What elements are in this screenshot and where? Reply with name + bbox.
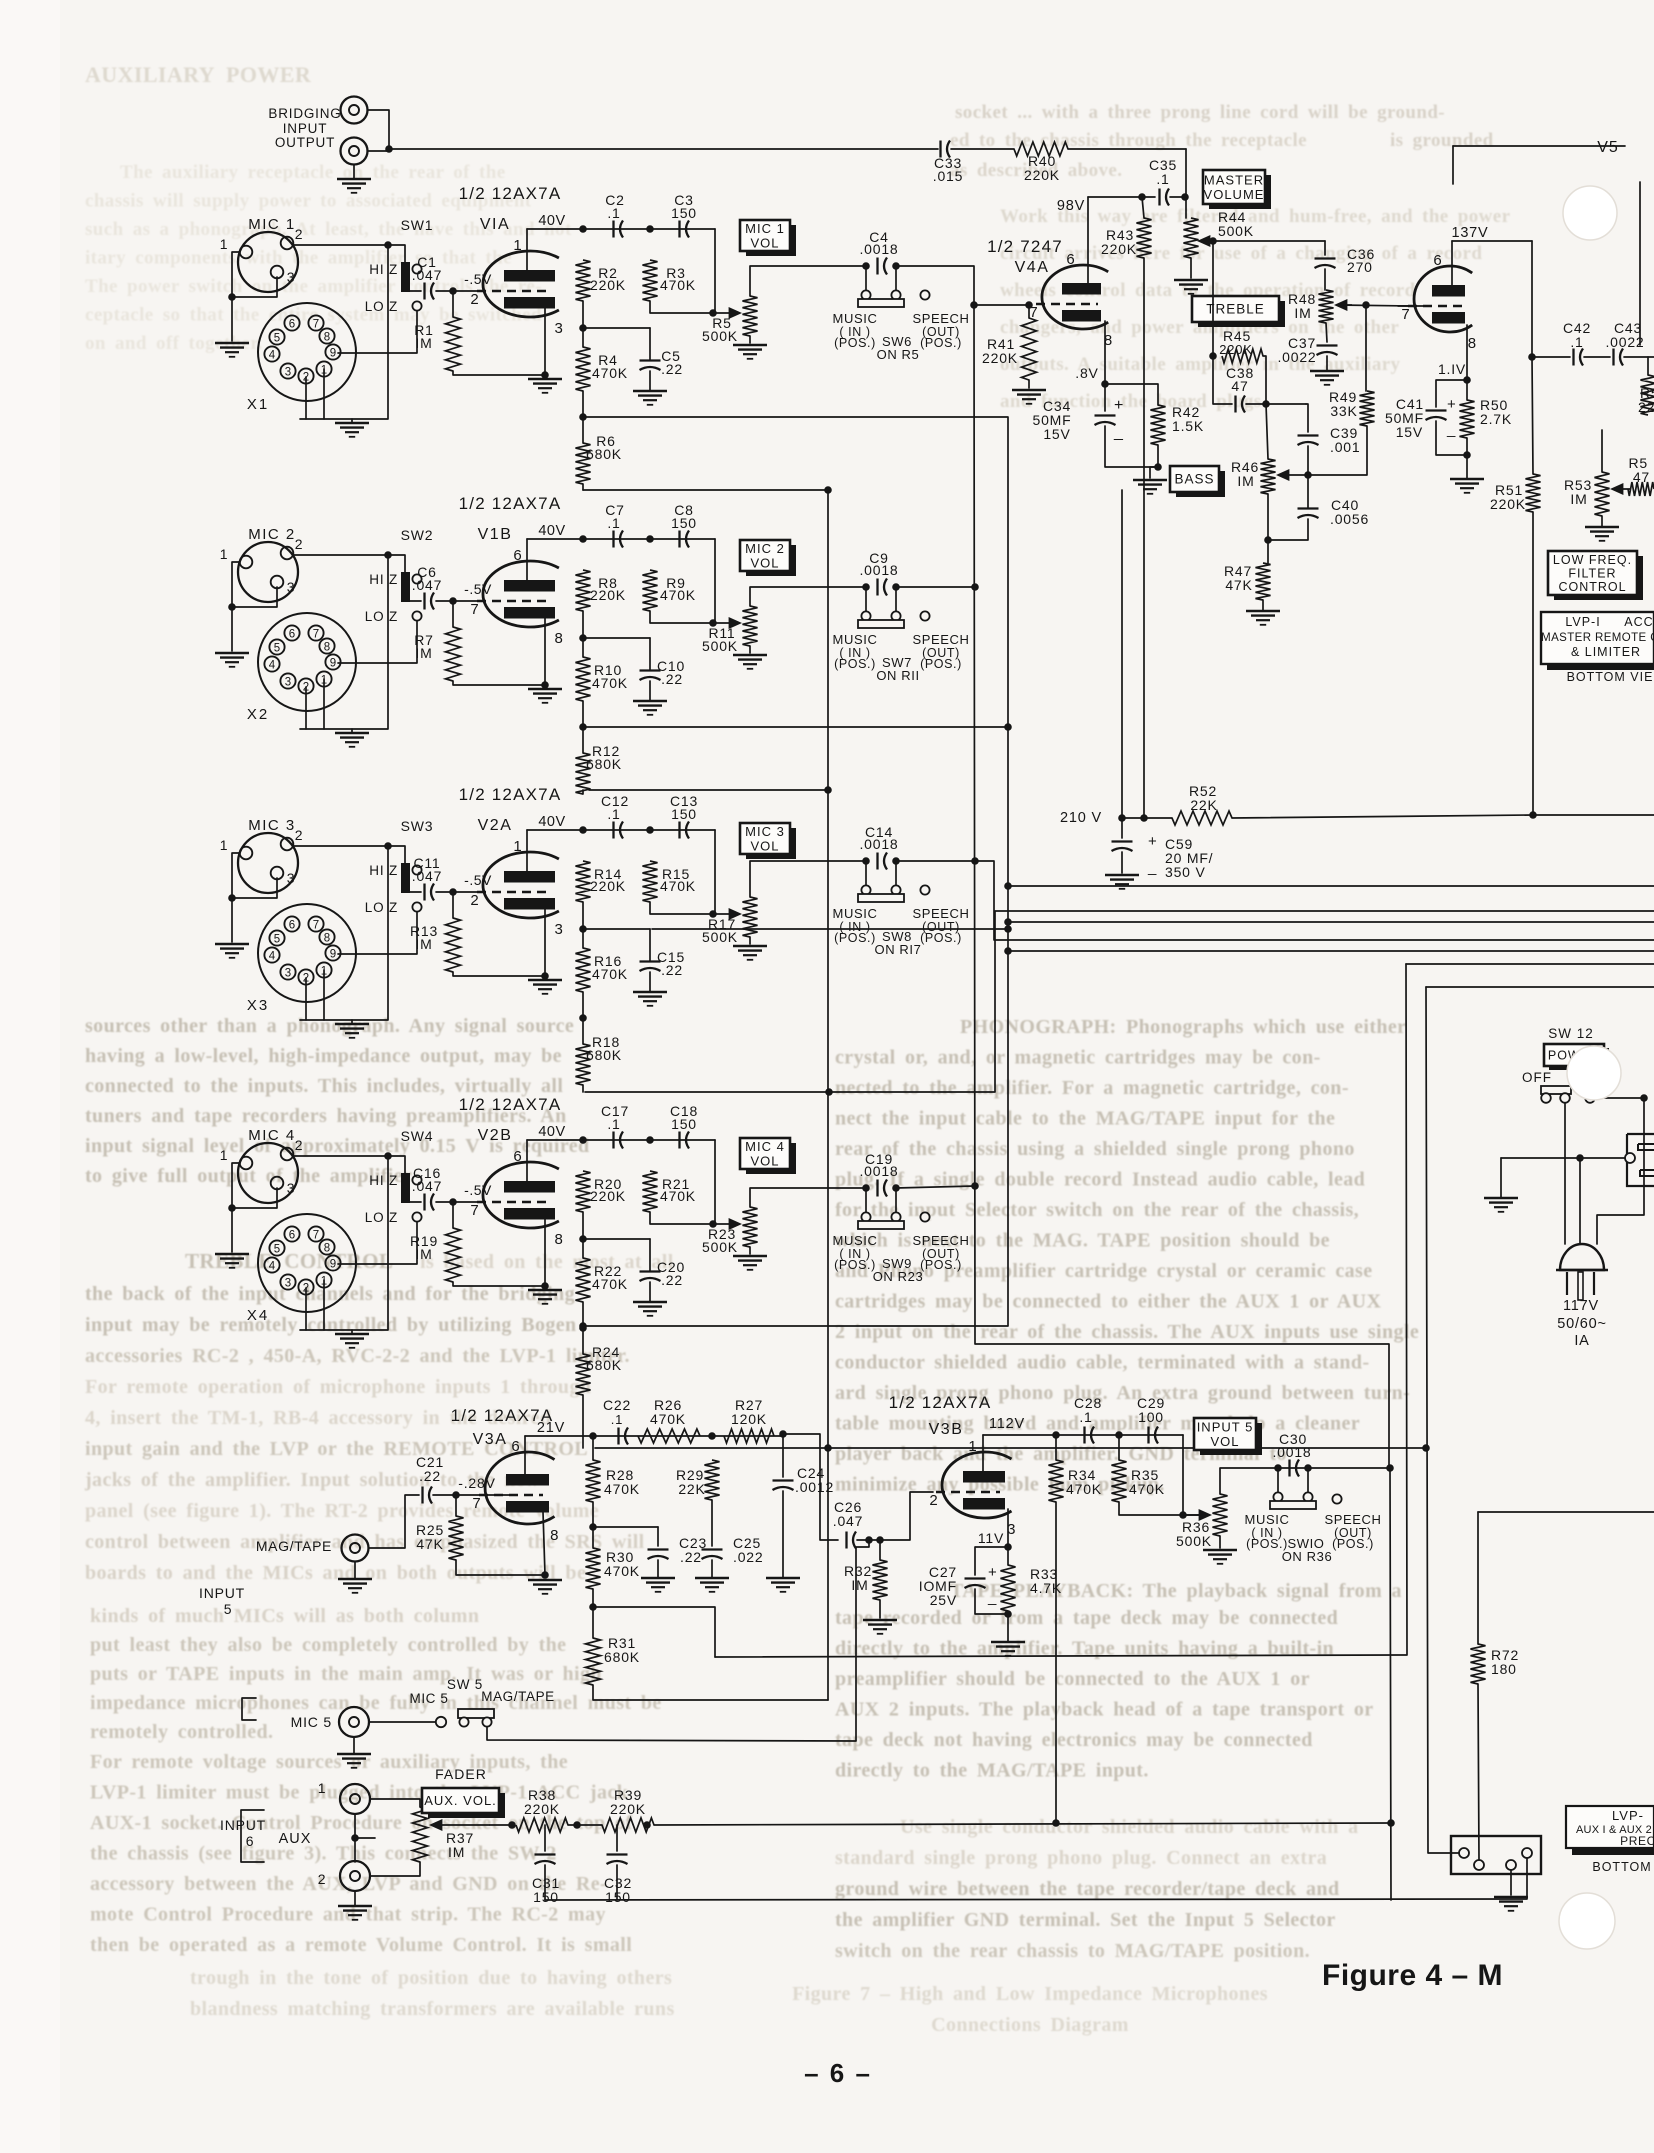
svg-text:7: 7: [313, 629, 319, 641]
grid node: [449, 1198, 457, 1206]
wire pot top to selector line: [750, 266, 866, 296]
ground under terminal strip: [1510, 1870, 1512, 1895]
svg-text:8: 8: [324, 1243, 330, 1255]
wire right edge vertical: [1639, 182, 1641, 345]
capacitor C8 150: [678, 531, 680, 548]
svg-text:IM: IM: [415, 936, 432, 952]
svg-text:117V: 117V: [1563, 1298, 1599, 1314]
wire R3 bottom to pot arrow junction: [650, 902, 713, 914]
resistor R12 680K: [576, 753, 591, 794]
svg-text:ON RI7: ON RI7: [875, 942, 922, 957]
svg-text:IM: IM: [1294, 305, 1311, 321]
svg-text:which is next to the MAG.: which is next to the MAG. TAPE position …: [835, 1230, 1330, 1252]
wire junction to C5: [583, 637, 650, 639]
svg-text:220K: 220K: [1024, 167, 1060, 183]
svg-text:V2A: V2A: [478, 817, 513, 834]
svg-text:LVP-: LVP-: [1612, 1808, 1644, 1823]
wire to volume pot: [714, 539, 716, 623]
wire R53 top: [1601, 430, 1603, 472]
junction ch4 bus1: [579, 1322, 587, 1330]
svg-text:.22: .22: [661, 361, 683, 377]
svg-text:220K: 220K: [1219, 342, 1253, 357]
svg-text:5: 5: [274, 1244, 280, 1256]
resistor R15 470K: [643, 861, 658, 902]
wire R45 right to C38 lower: [1263, 356, 1266, 404]
svg-text:3: 3: [285, 367, 291, 379]
svg-text:.0056: .0056: [1330, 511, 1369, 527]
wire XLR pin2 to switch: [293, 845, 388, 847]
ground under pot: [733, 654, 767, 657]
svg-text:470K: 470K: [660, 878, 696, 894]
resistor R1 1M grid return: [446, 317, 461, 371]
junction bridging: [385, 145, 393, 153]
wire switch common to coupling capacitor: [410, 290, 421, 292]
svg-text:SPEECH: SPEECH: [912, 906, 969, 921]
svg-text:BRIDGING: BRIDGING: [268, 106, 341, 121]
svg-text:.22: .22: [661, 962, 683, 978]
svg-text:FILTER: FILTER: [1568, 566, 1616, 580]
capacitor C21 .22 input: [421, 1487, 423, 1504]
wire V3B plate lead: [982, 1435, 984, 1471]
svg-text:VOL: VOL: [750, 235, 779, 250]
svg-text:680K: 680K: [586, 756, 622, 772]
svg-text:ON R36: ON R36: [1282, 1549, 1333, 1564]
resistor R28 470K: [586, 1460, 601, 1502]
svg-text:MIC 2: MIC 2: [248, 526, 296, 543]
svg-text:470K: 470K: [660, 587, 696, 603]
wire bus2 vertical extension to R31 bus: [827, 1448, 829, 1700]
ground under MIC5 jack: [353, 1737, 355, 1753]
wire plate line: [527, 1139, 715, 1141]
jack MIC 5 input: [339, 1707, 369, 1737]
svg-text:210 V: 210 V: [1060, 810, 1102, 826]
wire grid resistor to cathode: [453, 371, 545, 375]
capacitor C5 .22 bypass: [640, 359, 661, 361]
wire plate lead to 40V plate line: [526, 1140, 528, 1181]
junction R38/R39: [573, 1821, 581, 1829]
svg-text:– 6 –: – 6 –: [804, 2058, 872, 2088]
label box MIC 1 VOL: [746, 225, 796, 256]
wire fader wiper to R38: [490, 1824, 512, 1826]
resistor R13 1M grid return: [446, 918, 461, 972]
svg-text:1: 1: [220, 236, 229, 252]
V4A cathode network: [1104, 321, 1106, 384]
svg-text:3: 3: [285, 677, 291, 689]
capacitor C24 .0012: [782, 1434, 784, 1477]
svg-text:.1: .1: [1079, 1409, 1092, 1425]
svg-text:.047: .047: [833, 1513, 863, 1529]
wire R2 to R4: [582, 902, 584, 948]
svg-text:PHONOGRAPH: Phonographs whic: PHONOGRAPH: Phonographs which use either: [960, 1016, 1406, 1038]
triode V2B (1/2 12AX7A): [483, 1162, 559, 1228]
wire R36 top to SW10 line: [1220, 1468, 1390, 1494]
junction SW9 output: [971, 1182, 979, 1190]
svg-text:3: 3: [287, 579, 296, 595]
svg-text:.22: .22: [419, 1468, 441, 1484]
svg-text:5: 5: [274, 333, 280, 345]
ground under cathode: [528, 688, 562, 691]
wire switch common to coupling capacitor: [410, 600, 421, 602]
svg-text:HI Z: HI Z: [369, 863, 398, 878]
junction bus1: [579, 723, 587, 731]
svg-text:1: 1: [220, 1147, 229, 1163]
svg-text:(POS.): (POS.): [920, 931, 962, 945]
svg-text:VOL: VOL: [750, 555, 779, 570]
wire switch common to coupling capacitor: [410, 1201, 421, 1203]
svg-text:.0018: .0018: [859, 241, 898, 257]
svg-text:6: 6: [511, 1438, 520, 1455]
svg-text:preamplifier should be conn: preamplifier should be connected to the …: [835, 1668, 1310, 1690]
triode V4A (1/2 7247): [1042, 265, 1108, 329]
label box TREBLE: [1198, 301, 1285, 327]
svg-text:220K: 220K: [610, 1801, 646, 1817]
label box MIC 2 VOL: [746, 545, 796, 576]
ground under R42: [1133, 479, 1167, 482]
svg-text:MASTER: MASTER: [1204, 172, 1264, 187]
svg-text:500K: 500K: [1218, 223, 1254, 239]
svg-text:(POS.): (POS.): [834, 657, 876, 671]
wire XLR pin1 to ground bus: [232, 853, 240, 942]
wire to volume pot: [714, 830, 716, 914]
svg-text:6: 6: [289, 629, 295, 641]
svg-text:switch on the rear chassis: switch on the rear chassis to MAG/TAPE p…: [835, 1940, 1310, 1962]
svg-text:680K: 680K: [586, 1357, 622, 1373]
wire V3A plate line to V3B grid line: [783, 1434, 838, 1540]
wire input6 bracket: [241, 1810, 264, 1862]
svg-text:X4: X4: [247, 1307, 269, 1324]
svg-text:98V: 98V: [1057, 198, 1085, 214]
svg-text:C22: C22: [603, 1397, 631, 1413]
svg-text:-.28V: -.28V: [458, 1475, 495, 1491]
capacitor C27 10MF 25V electrolytic: [975, 1547, 1008, 1575]
svg-text:.0022: .0022: [1277, 349, 1316, 365]
wire AUX jack2 to fader: [370, 1862, 420, 1876]
MAG/TAPE input jack: [342, 1535, 369, 1562]
label box MIC 4 VOL: [746, 1143, 796, 1174]
svg-text:TREBLE: TREBLE: [1206, 302, 1265, 317]
wire C26 to V3B grid: [857, 1492, 933, 1540]
junction ch2 bus2: [824, 786, 832, 794]
svg-text:2: 2: [470, 892, 479, 909]
wire XLR pin1 to ground bus: [232, 562, 240, 651]
ground on AC line: [1500, 1158, 1502, 1197]
wire to C39: [1306, 404, 1308, 432]
svg-text:MUSIC: MUSIC: [1245, 1512, 1290, 1527]
svg-text:V2B: V2B: [478, 1127, 513, 1144]
wire SW12 common down: [1564, 1103, 1566, 1244]
svg-text:1/2 12AX7A: 1/2 12AX7A: [459, 785, 562, 804]
svg-text:MIC 4: MIC 4: [248, 1127, 296, 1144]
svg-text:40V: 40V: [538, 523, 565, 539]
svg-text:TAPE PLAYBACK: The playback: TAPE PLAYBACK: The playback signal from …: [950, 1580, 1402, 1602]
potentiometer R5 500K volume control: [743, 296, 758, 336]
wire R46 bottom: [1267, 494, 1269, 563]
grid node: [449, 888, 457, 896]
ground under MAG/TAPE jack: [354, 1562, 356, 1578]
capacitor C3 150: [678, 221, 680, 238]
wire V5 plate supply line top right: [1453, 145, 1625, 147]
svg-text:270: 270: [1347, 259, 1373, 275]
svg-text:.1: .1: [1156, 171, 1169, 187]
svg-text:INPUT 5: INPUT 5: [1197, 1419, 1254, 1434]
wire ch1 bus1 to vertical bus: [583, 417, 1008, 1326]
svg-text:V4A: V4A: [1015, 259, 1050, 276]
capacitor C25 .022: [711, 1500, 713, 1546]
capacitor C18 150: [678, 1132, 680, 1149]
svg-text:220K: 220K: [590, 878, 626, 894]
junction cathode 1.1V: [1463, 376, 1471, 384]
wire R43 bottom to 210V supply: [1143, 258, 1145, 818]
capacitor C6 .047 input coupling: [423, 593, 425, 610]
ground under R53: [1585, 526, 1619, 529]
svg-text:(POS.): (POS.): [834, 1258, 876, 1272]
label box LVP-2 AUX1 & AUX2 PREAMP (cut at edge): [1566, 1806, 1654, 1848]
label box BASS: [1176, 471, 1225, 497]
svg-text:IM: IM: [415, 645, 432, 661]
svg-text:MIC 4: MIC 4: [745, 1139, 785, 1154]
svg-text:ON RII: ON RII: [876, 668, 919, 683]
capacitor C16 .047 input coupling: [423, 1194, 425, 1211]
resistor R18 680K: [576, 1044, 591, 1085]
svg-text:BOTTOM: BOTTOM: [1592, 1860, 1651, 1874]
svg-text:.22: .22: [661, 671, 683, 687]
wire INPUT5 bracket: [242, 1698, 256, 1720]
ground under cathode: [528, 1289, 562, 1292]
svg-text:3: 3: [285, 968, 291, 980]
ground under cathode: [528, 378, 562, 381]
svg-text:+: +: [1114, 397, 1124, 414]
tube socket X2 bottom view: [258, 613, 356, 711]
svg-text:the amplifier GND terminal.: the amplifier GND terminal. Set the Inpu…: [835, 1909, 1336, 1931]
svg-text:40V: 40V: [538, 213, 565, 229]
svg-text:470K: 470K: [604, 1563, 640, 1579]
svg-text:.22: .22: [661, 1272, 683, 1288]
svg-text:3: 3: [285, 1278, 291, 1290]
junction R2/R4: [579, 324, 587, 332]
junction pin2 node: [384, 241, 392, 249]
AC plug P1: [1560, 1244, 1604, 1270]
wire R40 to C35 node: [1068, 148, 1186, 150]
svg-text:470K: 470K: [604, 1481, 640, 1497]
svg-text:MIC 1: MIC 1: [248, 216, 296, 233]
capacitor C28 .1: [1083, 1427, 1085, 1444]
wire switch common to coupling capacitor: [410, 891, 421, 893]
wire LO Z contact to socket pin 9: [338, 621, 417, 663]
svg-text:150: 150: [671, 205, 697, 221]
capacitor C35 .1: [1158, 189, 1160, 206]
ground under C24: [766, 1577, 800, 1580]
tube socket X1 bottom view: [258, 303, 356, 401]
wire caps bottom bus to terminal strip: [545, 1858, 1527, 1900]
svg-text:120K: 120K: [731, 1411, 767, 1427]
svg-text:6: 6: [289, 920, 295, 932]
wire R31 bottom bus: [593, 1685, 828, 1700]
wire V4B grid from treble pot: [1398, 305, 1424, 307]
svg-text:HI Z: HI Z: [369, 1173, 398, 1188]
svg-text:500K: 500K: [1176, 1533, 1212, 1549]
wire output line corner D: [1426, 986, 1654, 988]
resistor R40 220K: [1014, 142, 1068, 156]
junction pin2 node: [384, 551, 392, 559]
svg-text:rear of the chassis using: rear of the chassis using a shielded sin…: [835, 1138, 1355, 1160]
svg-text:LO Z: LO Z: [365, 299, 398, 314]
junction ch3 bus2: [825, 1088, 833, 1096]
svg-text:1.IV: 1.IV: [1438, 361, 1466, 377]
wire 210V to right edge: [1533, 814, 1654, 816]
wire plate line: [527, 538, 715, 540]
wire feed line to right edge: [1478, 1511, 1654, 1513]
svg-text:180: 180: [1491, 1661, 1517, 1677]
wire cathode lead: [544, 618, 546, 685]
svg-text:For remote operation of mi: For remote operation of microphone input…: [85, 1376, 591, 1398]
wire ch4 bus2: [595, 1447, 1426, 1449]
junction pin2 node: [384, 1152, 392, 1160]
svg-text:8: 8: [324, 332, 330, 344]
potentiometer R36 500K input 5 volume: [1213, 1494, 1228, 1536]
wire R35 bottom to wiper: [1119, 1502, 1205, 1515]
svg-text:150: 150: [671, 515, 697, 531]
wire V4B cathode: [1466, 325, 1468, 380]
wire R4 to bus: [582, 1302, 584, 1328]
svg-text:9: 9: [330, 348, 336, 360]
wire ch3 bus1: [652, 928, 1008, 930]
svg-text:input may be remotely cont: input may be remotely controlled by util…: [85, 1314, 577, 1336]
wire R6 to lower bus: [582, 790, 584, 794]
svg-text:IM: IM: [1570, 491, 1587, 507]
plug prongs: [1566, 1272, 1568, 1295]
wire output line y940 to right edge: [976, 861, 1654, 940]
svg-text:impedance microphones can b: impedance microphones can be fully in th…: [90, 1692, 662, 1714]
resistor R29 22K: [705, 1460, 720, 1500]
wire R49 top: [1365, 305, 1367, 391]
svg-text:having a low-level, high-im: having a low-level, high-impedance outpu…: [85, 1045, 562, 1067]
wire cathode lead: [544, 308, 546, 375]
white punch hole bottom right: [1559, 1893, 1615, 1949]
svg-text:1.5K: 1.5K: [1172, 418, 1204, 434]
wire junction to C23: [593, 1526, 658, 1528]
wire SW9 to mix bus: [896, 1186, 975, 1188]
wire transformer right lead: [1597, 1098, 1644, 1244]
svg-text:137V: 137V: [1451, 225, 1488, 241]
wire plate line: [527, 228, 715, 230]
capacitor C34 50MF 15V electrolytic: [1104, 384, 1106, 411]
V3A grid node: [452, 1491, 460, 1499]
wire cathode lead: [544, 909, 546, 976]
svg-text:-.5V: -.5V: [464, 872, 492, 888]
svg-text:220K: 220K: [590, 277, 626, 293]
wire V3A plate lead: [524, 1436, 526, 1474]
svg-text:500K: 500K: [702, 1239, 738, 1255]
svg-text:150: 150: [533, 1889, 559, 1905]
svg-text:(POS.): (POS.): [920, 657, 962, 671]
svg-text:470K: 470K: [1129, 1481, 1165, 1497]
svg-text:directly to the MAG/TAPE i: directly to the MAG/TAPE input.: [835, 1760, 1149, 1782]
svg-text:.1: .1: [1570, 334, 1583, 350]
svg-text:.047: .047: [412, 1178, 442, 1194]
ground under R33: [991, 1641, 1025, 1644]
svg-text:500K: 500K: [702, 929, 738, 945]
wire R44 wiper down to R45: [1212, 241, 1214, 356]
wire plate lead to 40V plate line: [526, 539, 528, 580]
svg-text:AUX: AUX: [279, 1831, 312, 1847]
triode VIA (1/2 12AX7A): [483, 251, 559, 317]
wire SW12 to transformer: [1595, 1097, 1644, 1099]
svg-text:_: _: [987, 1589, 997, 1606]
white punch hole top right: [1563, 186, 1617, 240]
svg-text:470K: 470K: [592, 1276, 628, 1292]
jack J2 BRIDGING OUTPUT: [341, 138, 368, 165]
svg-text:1/2 12AX7A: 1/2 12AX7A: [459, 184, 562, 203]
svg-text:socket ... with a three prong: socket ... with a three prong line cord …: [955, 102, 1445, 123]
svg-text:AUX. VOL.: AUX. VOL.: [424, 1793, 497, 1808]
svg-text:3: 3: [555, 921, 564, 938]
svg-text:33K: 33K: [1330, 403, 1357, 419]
svg-text:INPUT: INPUT: [283, 121, 328, 136]
capacitor C43 .0022: [1612, 349, 1614, 366]
resistor R39 220K: [602, 1818, 654, 1832]
svg-text:8: 8: [555, 630, 564, 647]
svg-text:VOL: VOL: [750, 1153, 779, 1168]
wire V4A grid from mix bus: [974, 304, 1031, 306]
svg-text:X2: X2: [247, 706, 269, 723]
svg-text:puts or TAPE inputs in th: puts or TAPE inputs in the main amp. It …: [90, 1663, 602, 1685]
resistor R35 470K: [1112, 1460, 1127, 1502]
junction 11V: [1004, 1543, 1012, 1551]
capacitor C15 .22 bypass: [640, 960, 661, 962]
svg-text:.022: .022: [733, 1549, 763, 1565]
resistor R50 2.7K: [1466, 380, 1468, 400]
svg-text:Figure 4 – M: Figure 4 – M: [1322, 1959, 1503, 1992]
resistor R38 220K: [516, 1818, 568, 1832]
junction C24 top: [779, 1430, 787, 1438]
svg-text:7: 7: [470, 1202, 479, 1219]
svg-text:-.5V: -.5V: [464, 1182, 492, 1198]
svg-text:22: 22: [1638, 399, 1654, 415]
svg-text:MIC 3: MIC 3: [248, 817, 296, 834]
junction R41 top: [1025, 301, 1033, 309]
resistor R10 470K decoupling: [576, 657, 591, 701]
junction R2/R4: [579, 634, 587, 642]
switch SW8 music/speech selector on RI7: [862, 857, 870, 865]
junction ch3 bus1: [1004, 925, 1012, 933]
svg-text:IM: IM: [448, 1844, 465, 1860]
svg-text:MIC 3: MIC 3: [745, 824, 785, 839]
jack AUX input 1: [340, 1784, 370, 1814]
svg-text:Use single conductor shield: Use single conductor shielded audio cabl…: [900, 1816, 1359, 1838]
junction R45 left: [1209, 352, 1217, 360]
svg-text:1: 1: [220, 837, 229, 853]
junction mix bus / V4A grid line: [970, 301, 978, 309]
svg-text:2: 2: [295, 226, 304, 242]
svg-text:MIC 5: MIC 5: [409, 1691, 448, 1706]
svg-text:6: 6: [1433, 252, 1442, 269]
svg-text:control between amplifier a: control between amplifier and has emphas…: [85, 1531, 645, 1553]
svg-text:1/2 12AX7A: 1/2 12AX7A: [459, 494, 562, 513]
junction mix bus INPUT5: [1386, 1464, 1394, 1472]
wire XLR pin2 to switch: [293, 1155, 388, 1157]
junction pin1/pin3 ground: [228, 1204, 236, 1212]
wire to volume pot: [714, 229, 716, 313]
capacitor C30 .0018: [1288, 1460, 1290, 1477]
grid node: [449, 597, 457, 605]
junction bus1: [579, 413, 587, 421]
resistor R24 680K: [576, 1354, 591, 1395]
svg-text:220K: 220K: [1101, 241, 1137, 257]
capacitor C40 .0056: [1298, 507, 1319, 509]
wire SW7 to mix bus: [896, 586, 975, 588]
svg-text:LO Z: LO Z: [365, 609, 398, 624]
svg-text:470K: 470K: [592, 966, 628, 982]
